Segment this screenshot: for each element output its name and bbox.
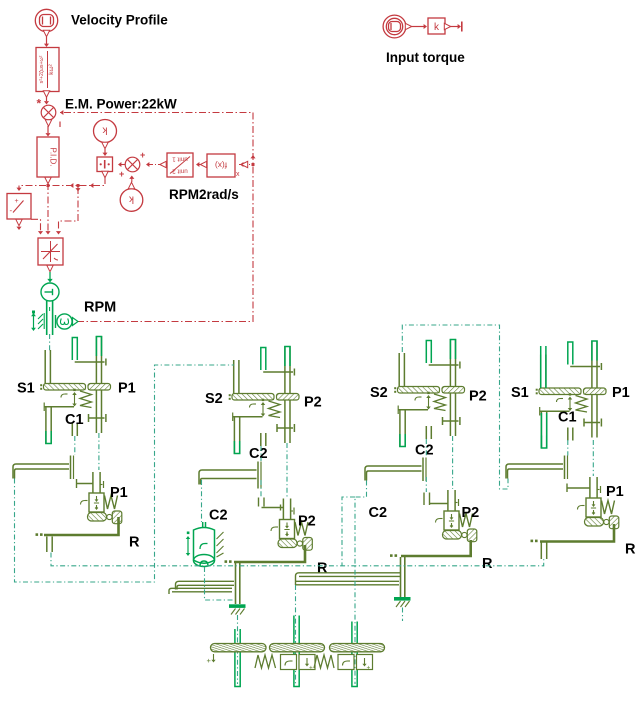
wire carrier pin 2 to lever 2	[260, 446, 262, 461]
wire hub3 to gear shaft B	[295, 585, 297, 684]
svg-text:C1: C1	[65, 412, 84, 428]
absolute value block	[97, 157, 113, 172]
wire carrier pin 1 to lever 1	[74, 436, 76, 455]
wire source2 to gain	[411, 26, 424, 28]
wire ring shaft 4 to clutch 4	[592, 440, 594, 476]
wire ground2 to gear shaft A	[237, 615, 239, 684]
ring output line column 2	[234, 545, 305, 562]
wire gain to output port	[450, 26, 458, 28]
svg-text:S1: S1	[17, 381, 35, 397]
clutch P2 (column 3)	[436, 490, 477, 542]
planetary gear set 4 (S1/P1/C1)	[536, 341, 606, 449]
summer junction X2	[119, 164, 125, 166]
gain circle k2	[120, 189, 143, 212]
svg-text:P2: P2	[469, 389, 487, 405]
bright sun shaft gearset4	[541, 346, 547, 448]
svg-text:R: R	[317, 561, 328, 577]
svg-text:+: +	[309, 665, 313, 672]
wire rate limiter to torque source	[49, 272, 51, 279]
gear box 2b	[357, 655, 373, 670]
unit converter block	[167, 153, 193, 177]
svg-text:s²+2ζωs+ω²: s²+2ζωs+ω²	[39, 55, 45, 83]
link lever1 to clutch1	[77, 479, 93, 488]
gear box 2a	[338, 655, 354, 670]
wire abs output bus	[19, 177, 105, 190]
ring output line column 3	[401, 540, 471, 556]
signal source U2 (input torque table)	[383, 15, 406, 38]
ring output line column 1	[44, 517, 119, 552]
svg-text:x: x	[236, 171, 240, 178]
brake lever column 2	[199, 462, 261, 489]
torque actuator M1	[41, 283, 59, 301]
function block f(x)	[207, 154, 235, 177]
feedback wire from speed sensor	[58, 113, 253, 322]
svg-text:P1: P1	[606, 484, 624, 500]
svg-text:+: +	[119, 169, 124, 179]
link lever2 to clutch2	[259, 480, 284, 511]
svg-text:S2: S2	[205, 391, 223, 407]
wire unit converter to X2	[148, 164, 160, 166]
ground column 3	[394, 597, 411, 601]
gear bar 1	[211, 644, 267, 652]
gear box 1b	[299, 655, 315, 670]
wire k1 to abs block	[104, 149, 106, 153]
wire PID to rate limiter	[47, 183, 49, 231]
wire carrier pin 3 to lever 3	[425, 439, 427, 458]
svg-text:C2: C2	[369, 505, 388, 521]
clutch P2 (column 2)	[271, 499, 312, 551]
svg-text:C2: C2	[249, 446, 268, 462]
PID controller block	[37, 137, 59, 177]
wire f(x) to unit converter	[197, 164, 200, 166]
svg-text:R: R	[625, 542, 636, 558]
input shaft	[47, 301, 53, 335]
svg-text:*: *	[37, 97, 42, 111]
wire switch to rate limiter	[31, 219, 41, 231]
svg-text:-: -	[10, 206, 13, 215]
svg-text:C2: C2	[209, 508, 228, 524]
link lever3 to clutch3	[424, 477, 448, 505]
speed sensor W1	[56, 314, 73, 329]
rotary damper to case	[32, 311, 35, 329]
clutch P1 (column 4)	[578, 477, 619, 529]
clutch P1 (column 1)	[81, 472, 122, 524]
svg-text:P1: P1	[118, 381, 136, 397]
wire k2 to X2	[131, 178, 133, 182]
svg-text:P1: P1	[612, 385, 630, 401]
ring output line column 4	[540, 524, 614, 559]
svg-text:Velocity Profile: Velocity Profile	[71, 13, 168, 28]
svg-text:+: +	[140, 150, 145, 160]
gear icon left	[213, 654, 215, 660]
wire ring shaft 1 to clutch 1	[98, 433, 100, 470]
wire shaft gap	[49, 334, 51, 351]
wire ring shaft 2 to clutch 2	[286, 443, 288, 497]
wire feedback branch to f(x)	[239, 164, 250, 166]
signal source U1 (velocity table)	[35, 9, 57, 31]
svg-text:unit 1: unit 1	[172, 156, 188, 163]
brake actuator cylinder	[194, 522, 215, 567]
switch block	[7, 194, 31, 220]
gear box 1a	[281, 655, 297, 670]
svg-text:+: +	[15, 198, 19, 205]
brake lever column 1	[13, 456, 74, 480]
link lever4 to clutch4	[567, 484, 590, 493]
wire ring shaft 3 to clutch 3	[452, 436, 454, 489]
gear bar 2	[270, 644, 325, 652]
wire transfer function to multiplier	[46, 97, 48, 101]
svg-text:RPM2rad/s: RPM2rad/s	[169, 187, 239, 202]
gear shaft A	[235, 629, 240, 687]
wire carrier pin 4 to lever 4	[567, 440, 569, 456]
gear shaft B	[294, 616, 299, 687]
wire lever2 to brake actuator	[201, 480, 203, 522]
svg-text:P2: P2	[298, 514, 316, 530]
svg-text:S2: S2	[370, 385, 388, 401]
brake lever column 3	[365, 458, 426, 482]
wire ground3 stub	[402, 608, 404, 622]
svg-text:kω²: kω²	[48, 63, 55, 74]
output hub column 3	[296, 557, 405, 597]
svg-text:RPM: RPM	[84, 300, 116, 316]
planetary gear set 3 (S2/P2/C2)	[394, 339, 464, 447]
gain block k3	[428, 18, 445, 34]
multiplier junction X1	[41, 105, 56, 120]
gear shaft C	[352, 622, 357, 687]
gear spring 2	[314, 655, 334, 668]
svg-text:Input torque: Input torque	[386, 50, 465, 65]
planetary gear set 2 (S2/P2/C2)	[229, 346, 299, 454]
transfer function block H1	[36, 48, 59, 92]
wire brake actuator to hub2	[205, 567, 235, 600]
gain circle k1	[94, 120, 117, 143]
svg-text:C2: C2	[415, 443, 434, 459]
gear bar 3	[330, 644, 385, 652]
svg-text:E.M. Power:22kW: E.M. Power:22kW	[65, 97, 177, 112]
svg-text:C1: C1	[558, 410, 577, 426]
svg-text:P.I.D.: P.I.D.	[49, 148, 58, 167]
wire lever1 control loop	[15, 365, 235, 582]
svg-text:R: R	[482, 556, 493, 572]
wire lever4 control from gearset3 sun	[402, 325, 508, 489]
rate limiter block	[38, 238, 63, 265]
wire branch to rate limiter	[59, 187, 79, 231]
wire branch column3	[342, 497, 355, 566]
output hub column 2	[169, 561, 240, 604]
svg-text:S1: S1	[511, 385, 529, 401]
wire ring bus R	[51, 553, 544, 566]
svg-text:P2: P2	[304, 395, 322, 411]
wire multiplier to PID	[47, 126, 49, 133]
brake lever column 4	[506, 456, 568, 480]
ground column 2	[229, 604, 246, 608]
svg-text:+: +	[207, 656, 212, 665]
wire source to transfer function	[46, 37, 48, 44]
svg-text:unit 2: unit 2	[172, 168, 188, 175]
svg-text:+: +	[367, 665, 371, 672]
svg-text:f(x): f(x)	[215, 161, 227, 171]
svg-text:P1: P1	[110, 485, 128, 501]
gear spring 1	[255, 655, 276, 668]
wire lever3 to gear shaft C	[355, 481, 367, 685]
planetary gear set 1 (S1/P1/C1)	[40, 336, 110, 444]
svg-text:P2: P2	[462, 505, 480, 521]
svg-text:R: R	[129, 535, 140, 551]
